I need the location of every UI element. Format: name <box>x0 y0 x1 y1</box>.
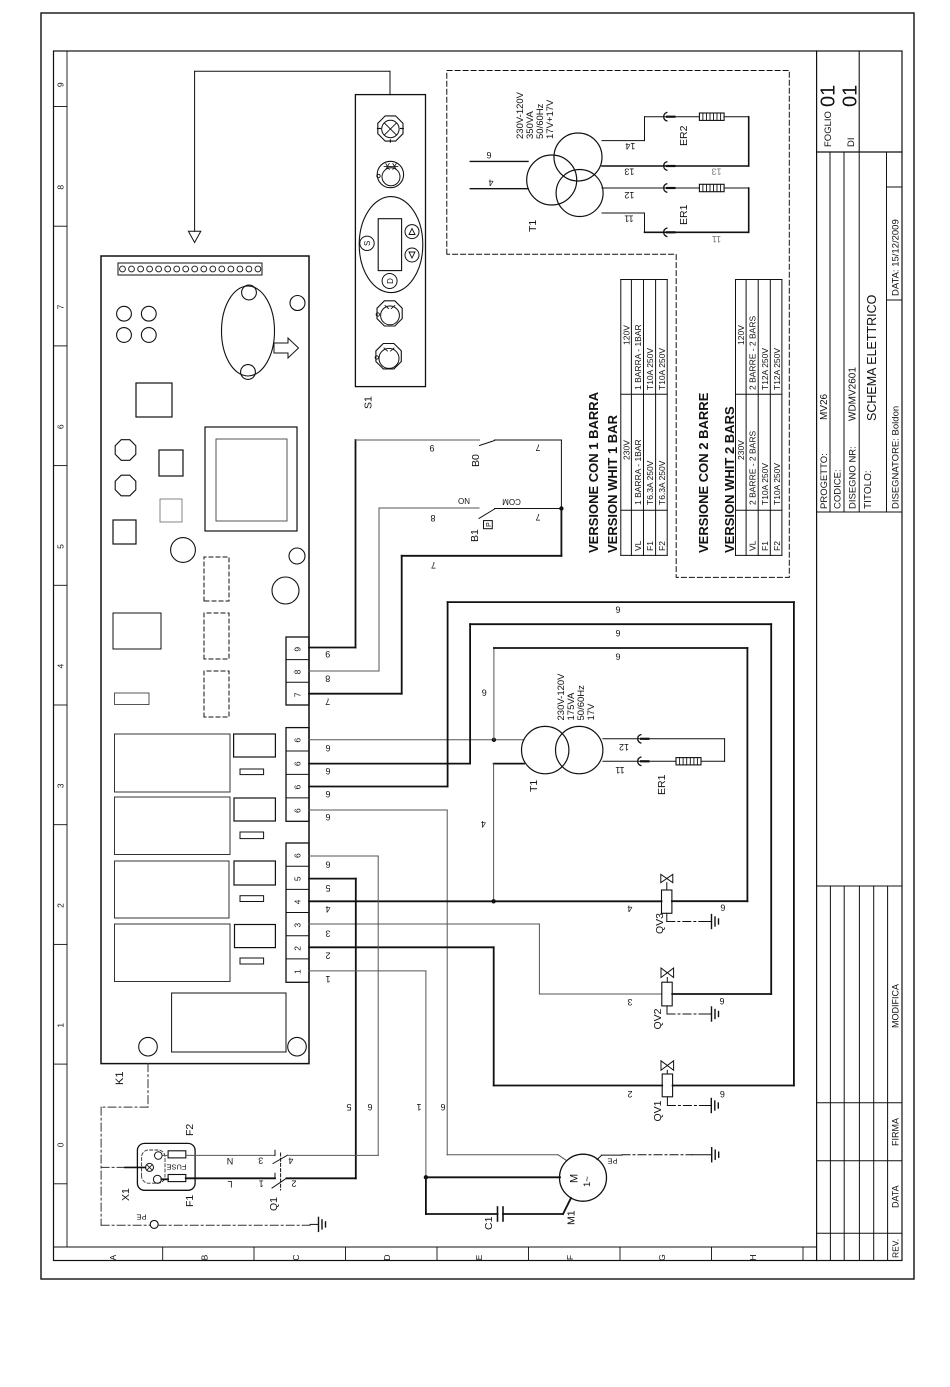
svg-text:9: 9 <box>56 82 66 87</box>
svg-text:3: 3 <box>56 783 66 788</box>
connector strip pin <box>255 266 261 272</box>
svg-text:DATA: DATA <box>891 1185 901 1208</box>
title DATA cell <box>887 186 903 188</box>
revision table row line <box>843 886 845 1261</box>
ground QV1 <box>666 1097 668 1106</box>
transformer T1 primary circle <box>527 155 577 205</box>
svg-text:2 BARRE - 2 BARS: 2 BARRE - 2 BARS <box>748 316 758 390</box>
svg-text:MODIFICA: MODIFICA <box>891 984 901 1028</box>
X1 pin N <box>155 1152 163 1160</box>
board square <box>159 450 183 476</box>
ruler tick <box>619 1247 621 1261</box>
version table line <box>769 280 771 556</box>
wire 6 QV1 right <box>673 1085 794 1087</box>
S1 knob 1 <box>378 116 403 141</box>
svg-text:6: 6 <box>325 743 330 753</box>
svg-text:B1: B1 <box>469 529 481 542</box>
svg-text:8: 8 <box>430 513 435 523</box>
svg-text:VL: VL <box>633 540 643 551</box>
svg-text:4: 4 <box>293 899 303 904</box>
board hole <box>141 328 156 343</box>
svg-text:VERSION WHIT 2 BARS: VERSION WHIT 2 BARS <box>722 406 737 553</box>
svg-text:01: 01 <box>840 85 862 107</box>
component rect <box>234 798 275 821</box>
svg-text:D: D <box>382 1254 392 1260</box>
svg-text:1: 1 <box>56 1023 66 1028</box>
version table line <box>736 393 782 395</box>
ruler tick <box>54 225 68 227</box>
svg-text:T1: T1 <box>528 780 540 792</box>
svg-text:SCHEMA ELETTRICO: SCHEMA ELETTRICO <box>865 294 879 421</box>
junction <box>491 899 495 903</box>
svg-text:1: 1 <box>416 1102 421 1112</box>
S1 button down <box>405 248 419 262</box>
junction <box>492 738 496 742</box>
ground QV2 <box>666 1006 668 1014</box>
svg-text:F1: F1 <box>760 541 770 551</box>
board buzzer ellipse <box>222 286 275 376</box>
svg-text:DISEGNATORE: Boldon: DISEGNATORE: Boldon <box>891 406 902 509</box>
wire 6 pin6c to QV1 loop <box>309 786 448 788</box>
junction <box>424 1175 428 1179</box>
switch B1 <box>479 509 495 518</box>
valve QV1 symbol <box>661 1061 667 1071</box>
svg-text:5: 5 <box>293 876 303 881</box>
svg-text:4: 4 <box>56 663 66 668</box>
ruler tick <box>54 1063 68 1065</box>
svg-text:2 BARRE - 2 BARS: 2 BARRE - 2 BARS <box>748 431 758 505</box>
version table line <box>621 554 667 556</box>
wire 7 from B0 <box>495 439 562 441</box>
S1 knob 4 <box>376 344 401 369</box>
connector strip pin <box>228 266 234 272</box>
svg-text:6: 6 <box>325 766 330 776</box>
board rect <box>113 613 161 649</box>
svg-text:S: S <box>363 241 372 246</box>
board octagon pad <box>115 440 136 461</box>
title table row line <box>858 152 860 512</box>
svg-text:4: 4 <box>325 904 330 914</box>
version table line <box>757 280 759 556</box>
connector strip pin <box>147 266 153 272</box>
svg-text:17V+17V: 17V+17V <box>545 99 556 139</box>
valve QV2 coil <box>662 982 672 1006</box>
svg-text:G: G <box>657 1254 667 1261</box>
board display module outer <box>205 427 297 531</box>
title table left border <box>817 511 902 513</box>
svg-text:QV3: QV3 <box>654 913 666 934</box>
version table line <box>736 279 782 281</box>
S1 button D <box>382 274 397 289</box>
version table line <box>643 280 645 556</box>
svg-text:QV2: QV2 <box>652 1008 664 1029</box>
component rect <box>234 861 275 885</box>
svg-text:13: 13 <box>711 167 721 177</box>
svg-text:1: 1 <box>325 974 330 984</box>
revision table row line <box>829 886 831 1261</box>
svg-text:1 BARRA - 1BAR: 1 BARRA - 1BAR <box>633 324 643 390</box>
component rect small <box>240 896 264 902</box>
svg-text:120V: 120V <box>621 325 631 345</box>
ruler tick <box>54 106 68 108</box>
ruler tick <box>711 1247 713 1261</box>
svg-text:2: 2 <box>56 903 66 908</box>
connector strip pin <box>237 266 243 272</box>
svg-text:6: 6 <box>720 1089 725 1099</box>
board dashed rect 3 <box>204 671 229 717</box>
wire 14 <box>602 140 645 142</box>
revision table row line <box>887 886 889 1261</box>
svg-text:6: 6 <box>293 761 303 766</box>
ground motor PE <box>622 1154 692 1156</box>
svg-text:C: C <box>291 1254 301 1260</box>
S1 knob 2 <box>377 161 403 187</box>
ground mains PE <box>310 1223 319 1225</box>
PE lead <box>101 1166 125 1168</box>
svg-text:14: 14 <box>625 141 635 151</box>
board circle <box>171 538 196 563</box>
ruler tick <box>54 1183 68 1185</box>
board octagon pad <box>115 475 136 496</box>
title table row line <box>843 152 845 512</box>
svg-text:6: 6 <box>293 738 303 743</box>
svg-text:2: 2 <box>291 1178 296 1188</box>
revision table top line <box>817 885 902 887</box>
title table row line <box>886 152 888 512</box>
ruler tick <box>528 1247 530 1261</box>
wire 12 T1 secondary <box>603 738 725 740</box>
svg-text:9: 9 <box>429 443 434 453</box>
svg-text:6: 6 <box>720 903 725 913</box>
wire to motor main <box>426 1176 560 1178</box>
svg-text:8: 8 <box>293 669 303 674</box>
svg-text:7: 7 <box>56 304 66 309</box>
svg-text:FIRMA: FIRMA <box>891 1118 901 1146</box>
connector strip pin <box>156 266 162 272</box>
svg-text:7: 7 <box>535 512 540 522</box>
svg-text:6: 6 <box>367 1102 372 1112</box>
svg-text:T6.3A 250V: T6.3A 250V <box>645 460 655 505</box>
board square thin <box>160 499 182 522</box>
wire COM to junction <box>495 508 562 510</box>
svg-text:0: 0 <box>56 1142 66 1147</box>
svg-text:4: 4 <box>627 904 632 914</box>
FOGLIO box left line <box>817 151 902 153</box>
svg-text:VERSIONE CON 2 BARRE: VERSIONE CON 2 BARRE <box>696 392 711 553</box>
wire N <box>162 1154 168 1156</box>
svg-text:ER1: ER1 <box>678 204 690 225</box>
svg-text:6: 6 <box>486 150 491 160</box>
svg-text:L: L <box>227 1179 232 1189</box>
svg-text:X1: X1 <box>120 1188 132 1201</box>
fuse F1 <box>168 1175 186 1182</box>
capacitor C1 <box>497 1207 499 1221</box>
svg-text:Q1: Q1 <box>268 1197 280 1211</box>
connector X1 body <box>137 1143 195 1190</box>
wire 9 to B0 <box>309 647 356 649</box>
revision table row line <box>858 886 860 1261</box>
component rect small <box>240 958 264 964</box>
revision table row line <box>873 886 875 1261</box>
buzzer hole bottom <box>241 365 256 380</box>
svg-text:4: 4 <box>488 177 493 187</box>
svg-text:T10A 250V: T10A 250V <box>645 348 655 390</box>
svg-text:11: 11 <box>712 234 721 244</box>
svg-text:6: 6 <box>293 784 303 789</box>
ruler tick <box>436 1247 438 1261</box>
relay RL4 <box>115 924 231 982</box>
wire 3 pin3 to QV2 <box>309 923 539 925</box>
board mounting hole left <box>139 1037 158 1056</box>
revision table column line <box>817 1160 902 1162</box>
ruler tick <box>162 1247 164 1261</box>
ruler tick <box>54 345 68 347</box>
svg-text:230V: 230V <box>621 440 631 460</box>
svg-text:H: H <box>748 1254 758 1260</box>
connector strip pin <box>138 266 144 272</box>
FOGLIO box divider <box>858 51 860 152</box>
svg-text:PE: PE <box>136 1212 146 1221</box>
svg-text:F1: F1 <box>645 541 655 551</box>
board display module inner <box>216 439 287 521</box>
wire 6 QV2 right <box>672 993 771 995</box>
svg-text:11: 11 <box>615 765 624 775</box>
board square <box>113 520 136 544</box>
switch Q1 pole N <box>274 1150 276 1155</box>
S1 display window <box>378 219 401 271</box>
wire 4 T1 primary to pin4 <box>494 763 524 765</box>
svg-text:6: 6 <box>440 1102 445 1112</box>
dash-dot K1 boundary <box>147 1064 149 1108</box>
switch Q1 link <box>280 1153 282 1190</box>
svg-text:7: 7 <box>535 443 540 453</box>
svg-text:3: 3 <box>325 928 330 938</box>
connector strip pin <box>219 266 225 272</box>
relay RL2 <box>115 797 231 855</box>
svg-text:ER1: ER1 <box>656 774 668 795</box>
svg-text:11: 11 <box>624 213 633 223</box>
svg-text:12: 12 <box>624 190 634 200</box>
heater ER1 <box>676 758 701 765</box>
svg-text:6: 6 <box>325 859 330 869</box>
svg-text:T10A 250V: T10A 250V <box>657 348 667 390</box>
version table line <box>655 280 657 556</box>
connector strip pin <box>129 266 135 272</box>
junction <box>559 506 563 510</box>
relay RL1 <box>115 734 231 792</box>
ruler tick <box>54 704 68 706</box>
svg-text:6: 6 <box>325 812 330 822</box>
S1 button up <box>405 225 419 239</box>
X1 pin L <box>153 1175 161 1183</box>
wire L <box>161 1178 168 1180</box>
board circle top-right <box>290 296 305 311</box>
X1 pin PE <box>146 1163 154 1171</box>
dash-dot PE to ground <box>158 1224 310 1226</box>
board dashed rect 2 <box>204 613 229 659</box>
svg-text:NO: NO <box>458 496 470 505</box>
X1 inlet contour <box>142 1150 165 1183</box>
wire 8 to B1 <box>309 670 379 672</box>
svg-text:FOGLIO: FOGLIO <box>823 111 834 147</box>
svg-text:1: 1 <box>259 1178 264 1188</box>
connector strip pin <box>210 266 216 272</box>
version table line <box>736 554 782 556</box>
svg-text:S1: S1 <box>363 396 375 409</box>
border inner frame <box>54 51 903 1261</box>
wire 11 return <box>748 188 750 232</box>
version table line <box>781 280 783 556</box>
svg-text:T12A 250V: T12A 250V <box>772 348 782 390</box>
svg-text:B: B <box>199 1254 209 1260</box>
version table line <box>621 279 667 281</box>
wire 6 QV3 right <box>672 900 748 902</box>
connector strip pin <box>246 266 252 272</box>
wire 6 pin6a to T1 and QV3 loop <box>309 739 524 741</box>
svg-text:9: 9 <box>293 647 303 652</box>
svg-text:FUSE: FUSE <box>166 1162 186 1171</box>
svg-text:MV26: MV26 <box>819 393 830 420</box>
terminal block X6 (4x) <box>286 728 309 822</box>
svg-text:4: 4 <box>288 1155 293 1165</box>
version table line <box>745 280 747 556</box>
board K1 connector strip <box>118 263 262 275</box>
svg-text:P: P <box>486 522 493 527</box>
transformer T1 secondary A circle <box>554 133 602 181</box>
svg-text:WDMV2601: WDMV2601 <box>848 367 859 421</box>
svg-text:F2: F2 <box>657 541 667 551</box>
svg-text:F: F <box>565 1255 575 1260</box>
svg-text:1: 1 <box>293 969 303 974</box>
svg-text:REV.: REV. <box>891 1239 901 1258</box>
arrowhead <box>188 231 200 242</box>
switch Q1 pole L <box>274 1173 276 1178</box>
svg-text:7: 7 <box>293 692 303 697</box>
svg-text:VERSION WHIT 1 BAR: VERSION WHIT 1 BAR <box>605 414 620 553</box>
board circle <box>272 577 299 604</box>
terminal block X1-6 <box>286 843 309 982</box>
wire 12 <box>602 187 699 189</box>
svg-text:6: 6 <box>293 853 303 858</box>
svg-text:1 BARRA - 1BAR: 1 BARRA - 1BAR <box>633 439 643 505</box>
connector strip pin <box>165 266 171 272</box>
svg-text:12: 12 <box>619 742 629 752</box>
connector strip pin <box>192 266 198 272</box>
svg-text:6: 6 <box>325 789 330 799</box>
heater ER2 <box>699 113 724 120</box>
svg-text:3: 3 <box>293 923 303 928</box>
svg-text:4: 4 <box>481 819 486 829</box>
wire 2 pin2 to QV1 <box>309 946 494 948</box>
svg-text:DATA: 15/12/2009: DATA: 15/12/2009 <box>891 219 902 296</box>
version table line <box>621 509 667 511</box>
wire 6 pin6d to motor <box>309 809 447 811</box>
svg-text:2: 2 <box>293 946 303 951</box>
svg-text:6: 6 <box>56 424 66 429</box>
svg-text:T10A 250V: T10A 250V <box>772 463 782 505</box>
svg-text:2: 2 <box>325 950 330 960</box>
version table line <box>736 509 782 511</box>
svg-text:F1: F1 <box>184 1195 196 1207</box>
svg-text:D: D <box>386 278 395 284</box>
panel S1 outline <box>355 95 425 387</box>
board hole <box>117 306 132 321</box>
transformer T1 secondary B circle <box>556 170 603 217</box>
version table line <box>621 393 667 395</box>
valve QV3 symbol <box>661 874 667 882</box>
svg-text:COM: COM <box>502 497 521 506</box>
svg-text:13: 13 <box>624 167 634 177</box>
version table line <box>630 280 632 556</box>
svg-text:1~: 1~ <box>582 1176 593 1187</box>
svg-text:F2: F2 <box>184 1124 196 1136</box>
svg-text:QV1: QV1 <box>652 1100 664 1121</box>
relay RL3 <box>115 861 230 918</box>
wire 6 pin6b to QV2 loop <box>309 763 470 765</box>
board circle small <box>289 548 305 564</box>
svg-text:2: 2 <box>627 1089 632 1099</box>
version table line <box>620 280 622 556</box>
wire 11 T1 secondary to heater ER1 <box>603 760 676 762</box>
S1 button S <box>360 236 374 250</box>
svg-text:6: 6 <box>615 628 620 638</box>
version table line <box>666 280 668 556</box>
motor PE wire <box>597 1155 602 1160</box>
svg-text:VL: VL <box>748 540 758 551</box>
svg-text:B0: B0 <box>470 454 482 467</box>
valve QV3 coil <box>662 890 672 913</box>
wire 5 pin5 to Q1 <box>309 878 356 880</box>
connector strip pin <box>201 266 207 272</box>
svg-text:6: 6 <box>293 808 303 813</box>
wire 7 to pin 7 <box>560 509 562 556</box>
dashed option box <box>447 71 790 578</box>
board IC square <box>136 383 172 417</box>
svg-text:VERSIONE CON 1 BARRA: VERSIONE CON 1 BARRA <box>586 391 601 553</box>
connector strip pin <box>174 266 180 272</box>
ruler tick <box>802 1247 804 1261</box>
board dashed rect 1 <box>204 557 229 601</box>
ruler band line (numbers, landscape top) <box>66 51 68 1247</box>
board mounting hole right <box>288 1037 307 1056</box>
svg-text:3: 3 <box>627 997 632 1007</box>
S1 display oval <box>359 197 423 293</box>
svg-text:6: 6 <box>719 996 724 1006</box>
svg-text:PROGETTO:: PROGETTO: <box>819 453 830 509</box>
revision table column line <box>817 1232 902 1234</box>
board arrow marker <box>274 338 299 358</box>
wire 6 stub <box>470 160 528 162</box>
svg-text:6: 6 <box>482 687 487 697</box>
component rect <box>235 925 276 948</box>
svg-text:A: A <box>108 1254 118 1260</box>
wire 4 stub <box>470 188 528 190</box>
wire 6 pin6 to Q1 N <box>309 855 378 857</box>
ruler band line (letters, landscape left) <box>54 1246 817 1248</box>
switch B0 <box>480 441 495 446</box>
pressure switch P box <box>484 521 493 529</box>
svg-text:K1: K1 <box>114 1072 126 1085</box>
ruler tick <box>54 465 68 467</box>
svg-text:8: 8 <box>56 185 66 190</box>
ruler tick <box>345 1247 347 1261</box>
svg-text:7: 7 <box>325 696 330 706</box>
svg-text:TITOLO:: TITOLO: <box>863 470 874 509</box>
svg-text:230V: 230V <box>736 440 746 460</box>
svg-text:17V: 17V <box>586 703 597 721</box>
board small rect <box>115 693 150 705</box>
svg-text:01: 01 <box>818 85 840 107</box>
